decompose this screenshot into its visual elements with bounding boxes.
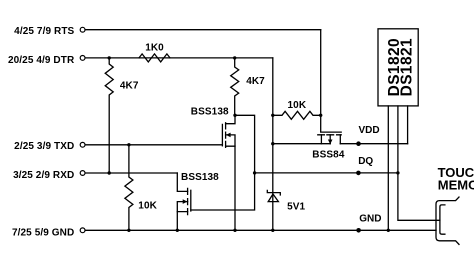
svg-text:DS1821: DS1821 [398, 38, 415, 96]
transistor Q1 body arrow [226, 133, 231, 138]
junction dot R5-gate [319, 114, 322, 117]
wire DTR vertical down x272.8 [272, 58, 274, 230]
svg-text:1K0: 1K0 [145, 42, 164, 53]
transistor Q3 drain stub [339, 135, 341, 144]
wire DQ pin down to probe [398, 106, 440, 220]
transistor Q1 drain stub [226, 115, 235, 123]
junction dot DQ leg [396, 171, 399, 174]
transistor Q3 BSS84 gate bar [321, 131, 342, 133]
svg-text:7/25 5/9 GND: 7/25 5/9 GND [12, 227, 74, 238]
svg-text:BSS138: BSS138 [181, 172, 219, 183]
node VDD dot [356, 141, 361, 146]
junction dot Q1 drain node [233, 114, 236, 117]
wire RXD horizontal [85, 172, 177, 174]
junction dot DTR riser at R5 [271, 114, 274, 117]
svg-text:20/25 4/9 DTR: 20/25 4/9 DTR [8, 55, 75, 66]
wire RTS vertical to BSS84 gate [320, 30, 322, 132]
resistor R3 4K7 right [231, 58, 239, 115]
wire DTR horizontal [85, 57, 273, 59]
svg-text:MEMORY: MEMORY [438, 178, 474, 193]
transistor Q2 channel segments [187, 188, 189, 214]
junction dot GND-Q1 [233, 229, 236, 232]
svg-text:GND: GND [359, 213, 381, 224]
terminal RTS [80, 27, 85, 32]
wire VDD horizontal left [273, 143, 330, 145]
junction dot GND-R4 [127, 229, 130, 232]
svg-text:4K7: 4K7 [120, 80, 139, 91]
svg-text:BSS138: BSS138 [191, 106, 229, 117]
junction dot TXD-R4 [127, 143, 130, 146]
terminal TXD [80, 142, 85, 147]
diode D1 zener triangle [268, 194, 278, 202]
wire DQ horizontal [255, 172, 398, 174]
svg-text:DQ: DQ [358, 156, 373, 167]
transistor Q2 body arrow [183, 199, 188, 204]
transistor Q1 BSS138 gate bar [221, 124, 223, 145]
transistor Q1 source stub [226, 146, 235, 230]
touch probe inner contact [440, 205, 445, 234]
transistor Q3 body arrow [328, 140, 333, 145]
wire TXD horizontal [85, 144, 222, 146]
terminal RXD [80, 171, 85, 176]
transistor Q2 source stub [177, 212, 187, 231]
transistor Q1 body stub [226, 135, 235, 146]
transistor Q3 source stub [320, 135, 322, 144]
junction dot GND-D1 [271, 229, 274, 232]
DS1820 box [378, 29, 418, 106]
resistor R5 10K horizontal [273, 111, 321, 119]
junction dot GND-Q2 [176, 229, 179, 232]
diode D1 zener 5V1 bar [267, 190, 280, 195]
terminal DTR [80, 56, 85, 61]
junction dot GND leg [387, 229, 390, 232]
svg-text:4/25 7/9 RTS: 4/25 7/9 RTS [14, 26, 74, 37]
junction dot VDD rail left [271, 142, 274, 145]
junction dot DQ riser [253, 171, 256, 174]
svg-text:BSS84: BSS84 [312, 150, 345, 161]
svg-text:5V1: 5V1 [287, 202, 305, 213]
transistor Q2 body stub [177, 202, 187, 212]
junction dot RXD-R2 [108, 171, 111, 174]
svg-text:2/25 3/9 TXD: 2/25 3/9 TXD [14, 141, 74, 152]
wire GND horizontal [85, 229, 436, 231]
junction dot DTR-R3 [233, 56, 236, 59]
wire RTS horizontal [85, 29, 321, 31]
transistor Q2 BSS138 gate bar [190, 190, 192, 211]
resistor R1 1K0 [139, 54, 170, 62]
terminal GND [80, 228, 85, 233]
touch probe outer contact [436, 197, 459, 244]
svg-text:3/25 2/9 RXD: 3/25 2/9 RXD [13, 170, 74, 181]
svg-text:4K7: 4K7 [246, 76, 265, 87]
wire RXD down to Q2 drain [177, 173, 187, 191]
junction dot DTR-R2 [108, 56, 111, 59]
transistor Q3 body stub [329, 135, 331, 144]
resistor R2 4K7 left [105, 58, 113, 173]
transistor Q3 channel segments [318, 134, 341, 136]
svg-text:10K: 10K [288, 100, 307, 111]
wire node A riser x254.6 [191, 115, 255, 210]
wire GND pin leg [387, 106, 389, 230]
resistor R4 10K vertical [125, 145, 133, 231]
node GND dot [356, 228, 361, 233]
svg-text:VDD: VDD [359, 125, 380, 136]
transistor Q1 channel segments [225, 123, 227, 148]
wire VDD horizontal right [340, 143, 407, 145]
svg-text:10K: 10K [138, 200, 157, 211]
wire VDD pin leg [407, 106, 409, 144]
node DQ dot [356, 171, 361, 176]
